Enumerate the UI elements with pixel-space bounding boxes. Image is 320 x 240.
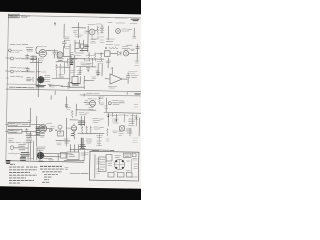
cluster row3: [26, 134, 32, 137]
junction dot x116: [116, 119, 118, 121]
resistor R5: [71, 59, 73, 65]
socket pin 1: [115, 160, 117, 162]
wire V1 cathode: [30, 61, 42, 63]
tick below divider x84: [83, 94, 85, 97]
supply arrow U1: [112, 67, 113, 70]
op-amp U1 input wire: [105, 78, 110, 80]
wire below V2b: [56, 61, 68, 63]
tick x51: [50, 96, 52, 100]
section C small text: [87, 92, 100, 94]
stack x84 sB: [83, 116, 85, 126]
section B title strip line: [80, 95, 141, 96]
attenuator parts row0: [26, 48, 33, 52]
rail wire: [70, 58, 104, 61]
wire mid: [76, 66, 96, 68]
wire x108: [107, 58, 109, 68]
wire v x58: [57, 154, 59, 161]
rail junction dot 2: [84, 58, 85, 59]
tube V4 envelope: [90, 100, 96, 106]
inset comp2 marks: [125, 155, 130, 157]
text row4: [9, 139, 14, 141]
resistor R7: [94, 53, 96, 61]
tube V4 grid: [90, 102, 94, 104]
Q1 label text: [88, 23, 101, 26]
U1 right text: [131, 76, 138, 78]
rail section B right: [104, 112, 141, 115]
resistor R1: [15, 58, 23, 60]
border tick row3: [6, 77, 9, 79]
cluster mid right: [59, 75, 64, 78]
capacitor C4: [87, 68, 90, 70]
wire x84: [83, 76, 85, 85]
capacitor C10: [63, 40, 67, 48]
tube V5 envelope: [71, 126, 76, 131]
resistor R12 horizontal: [109, 47, 118, 49]
connector F: [58, 125, 62, 129]
resistor R10 label: [74, 31, 78, 33]
inset wire v x132: [131, 159, 133, 172]
relay box K1: [75, 43, 79, 48]
wire x106: [105, 98, 107, 112]
text right stacks: [94, 127, 104, 129]
socket pin 4: [122, 167, 124, 169]
wire Q2 out: [129, 52, 138, 54]
junction dot x136: [136, 117, 137, 118]
wire x137b: [136, 50, 138, 62]
tick below divider x55: [54, 91, 56, 95]
text node D: [67, 108, 70, 110]
wire bus x88: [87, 26, 89, 52]
switch S2 contact c: [44, 157, 52, 159]
text row tail: [9, 141, 28, 144]
inset small text col: [97, 159, 101, 173]
marks x100 y38: [100, 37, 105, 43]
text V4 right: [101, 103, 104, 105]
marks x70 y52: [70, 53, 73, 55]
capacitor C11: [101, 25, 104, 34]
rail junction dot 3: [92, 58, 93, 59]
marks below V4: [89, 108, 94, 110]
inset bottom boxes a: [108, 173, 114, 178]
box H: [67, 152, 79, 160]
circuit tail connector J4: [10, 146, 14, 150]
rail label text 2: [75, 54, 94, 56]
wire x57: [56, 52, 58, 59]
wire x64 down: [63, 62, 65, 74]
wire row2: [23, 71, 35, 73]
wire V5 left: [66, 127, 71, 129]
wire row2 out: [22, 130, 36, 132]
wire V3 right: [47, 127, 52, 129]
box F: [58, 131, 64, 136]
bus dark cluster: [36, 127, 40, 134]
text x84 y61: [84, 60, 90, 62]
junction dot node B: [105, 47, 107, 49]
inset bottom boxes b: [118, 173, 125, 178]
notes line L5: [9, 177, 26, 179]
resistor R21: [73, 131, 75, 139]
box U2: [72, 77, 78, 84]
socket pin 3: [122, 160, 124, 162]
text rows x106: [106, 39, 115, 41]
capacitor C12: [136, 47, 139, 49]
box row2 text: [9, 131, 19, 133]
box G: [61, 153, 67, 159]
wire row1 out: [30, 124, 40, 126]
notes right col R4: [44, 174, 58, 176]
op-amp U1 output wire: [122, 78, 127, 80]
page background: [0, 0, 141, 200]
diode CR1: [118, 51, 122, 55]
switch S2 text: [37, 147, 46, 151]
inset box comp2b: [132, 153, 136, 156]
switch S2 spokes: [37, 152, 44, 159]
junction dot bus1: [36, 58, 37, 59]
Q1 right text: [100, 31, 105, 33]
dark marks below V5: [71, 134, 74, 136]
connector small V3 right: [49, 130, 51, 132]
wire v set b: [32, 141, 34, 160]
wire h y150: [70, 148, 104, 151]
marks left of V4: [85, 101, 89, 105]
resistor R3 marks: [27, 77, 34, 82]
connector J2: [11, 57, 14, 60]
notes heading: [9, 164, 64, 183]
cluster J4 boxes: [19, 145, 26, 150]
text right: [97, 136, 103, 138]
wire x30 sB: [29, 108, 31, 122]
faint cluster low right: [133, 138, 138, 142]
V2 right text rows: [65, 47, 70, 49]
marks x30 sB: [28, 120, 31, 122]
stack x136: [135, 115, 137, 127]
dark blob rail left: [6, 161, 10, 164]
wire x60 down: [59, 64, 61, 76]
text T-network lower: [75, 35, 84, 37]
wire x30 down: [29, 132, 31, 138]
resistor R22: [81, 126, 83, 134]
dark stack: [81, 138, 83, 148]
marks below S2 gear: [39, 160, 45, 162]
marks left of Q1: [85, 31, 88, 33]
V6 area text: [113, 101, 125, 105]
component text R12: [122, 47, 130, 51]
marks y86 mid: [51, 85, 55, 87]
wire x98: [97, 64, 99, 76]
marks x70 y70: [71, 71, 75, 73]
text mid sB: [51, 127, 55, 129]
wire F down: [59, 129, 61, 134]
notes right col R3: [42, 171, 62, 173]
wire vertical x137: [136, 44, 138, 53]
capacitor C20: [25, 128, 28, 133]
marks x77 y70: [77, 71, 82, 75]
border tick sB row1: [5, 123, 8, 125]
wire U2 out: [84, 79, 94, 81]
V1 top label: [38, 45, 47, 47]
right col text above: [129, 72, 138, 74]
wire x66 sB: [65, 97, 67, 109]
arrow node D: [65, 105, 68, 107]
bus wire 2: [37, 58, 39, 97]
wire vertical x64: [63, 24, 65, 38]
tube socket ring: [114, 159, 124, 169]
tick x127: [126, 92, 128, 94]
dark cluster sB: [78, 121, 85, 125]
relay box K1b: [81, 44, 84, 48]
switch S2 wafer: [37, 152, 44, 159]
wire V3 left: [36, 127, 39, 129]
cluster C10 text: [65, 37, 71, 40]
input connector J1: [9, 49, 12, 52]
junction dots mid: [51, 129, 52, 130]
wire x92 mid: [91, 59, 93, 67]
squiggle lower left: [9, 152, 20, 155]
wire below V2: [56, 66, 70, 68]
wire Q1 base: [86, 30, 98, 32]
faint marks x134 y104: [134, 105, 138, 108]
wire V2 out right: [64, 56, 73, 58]
component text U2: [92, 77, 96, 79]
section B title text: [9, 86, 34, 89]
connector circle E: [108, 102, 111, 105]
resistor R4 vertical: [67, 59, 69, 67]
labelled box row2: [8, 129, 22, 133]
marks x106 low: [106, 139, 109, 141]
trigger text row: [10, 43, 28, 45]
wire x99 sB low: [98, 134, 100, 147]
page top border: [8, 15, 141, 18]
resistor R4b vertical: [56, 64, 58, 78]
wire x108t: [107, 26, 109, 40]
tube V6 internals: [119, 125, 125, 131]
labelled box row1: [8, 122, 30, 126]
wire v set a2: [27, 143, 29, 161]
wire x74: [73, 56, 75, 76]
text row y44.6: [106, 44, 132, 47]
wire lower: [70, 86, 84, 90]
wire x68 short: [67, 82, 69, 89]
title box: [8, 14, 19, 18]
transistor Q1: [89, 29, 95, 35]
notes line L1: [9, 166, 38, 168]
text x112: [113, 131, 118, 133]
wire v x84: [83, 151, 85, 161]
text x97 y61: [97, 62, 103, 64]
wire y78.6: [52, 77, 70, 79]
resistor R25: [107, 129, 109, 136]
wavy cable J1: [11, 49, 22, 52]
inset marks right: [133, 158, 138, 160]
wire v set a: [29, 141, 31, 160]
border tick sB row2: [5, 130, 8, 132]
junction dot x108: [108, 116, 110, 118]
Q1 below cluster: [91, 40, 97, 44]
wire J4: [14, 147, 28, 149]
inset box right: [137, 152, 140, 181]
inset text: [115, 156, 121, 158]
marks right bus: [64, 139, 69, 143]
stack x132: [131, 114, 133, 124]
connector J3: [11, 70, 14, 73]
marks right col: [135, 61, 139, 66]
inset bottom boxes c: [127, 173, 133, 178]
stack x124: [123, 114, 125, 122]
section A bottom-left border: [6, 83, 40, 86]
tube V1 grid: [40, 51, 45, 55]
rail tick 2: [111, 113, 113, 117]
rail junction dot 1: [75, 58, 76, 59]
border tick row1: [6, 57, 11, 59]
wire v set d: [38, 150, 40, 161]
section C page ref: [135, 93, 141, 95]
node arrow A: [54, 23, 55, 26]
text above rail: [29, 158, 34, 160]
section divider line: [6, 89, 141, 92]
triode V2b circle: [71, 55, 75, 59]
wire row3 out: [32, 135, 40, 137]
V3 label below: [40, 134, 45, 137]
notes right col R5: [44, 176, 52, 178]
transistor Q2: [123, 51, 128, 56]
notes right col R7: [42, 181, 50, 183]
switch SW1 terminals dark: [37, 85, 46, 86]
cluster right mid: [126, 128, 132, 136]
test point TP1: [116, 29, 121, 34]
dark cluster V2 left: [70, 59, 74, 65]
dark L cluster: [71, 83, 81, 86]
tube V3 internals: [40, 126, 45, 130]
text row3: [10, 75, 23, 78]
box U3: [105, 51, 111, 57]
marks below V6: [119, 132, 125, 136]
wire V2 plate up: [62, 46, 64, 57]
dark marks B cluster: [80, 45, 89, 51]
text row2: [10, 67, 26, 70]
scanner black band bottom: [0, 186, 141, 200]
transistor Q2 internals: [125, 52, 128, 55]
resistor R20: [99, 97, 101, 104]
wire x80 down: [79, 67, 81, 75]
dark blob x20: [20, 157, 26, 160]
inset inner wire: [94, 155, 96, 179]
inset box comp2: [124, 153, 132, 157]
title box text: [9, 16, 18, 17]
notes line L6: [9, 180, 34, 182]
resistor R23: [86, 126, 88, 134]
wire T1 to bus: [48, 85, 70, 87]
wire x76 sB: [75, 104, 77, 116]
text below F: [57, 143, 62, 145]
rail text: [107, 114, 119, 116]
marks box H: [69, 153, 86, 156]
text x118 y115: [119, 114, 136, 117]
resistor R11: [97, 26, 99, 35]
wire x134: [133, 28, 135, 37]
border tick row2: [5, 70, 10, 72]
switch wafer SW1: [38, 77, 44, 83]
text SEE note: [65, 168, 88, 174]
wire h y133: [78, 132, 104, 135]
notes line L2: [9, 169, 37, 171]
cluster row4: [26, 139, 32, 142]
wire long x70: [69, 44, 71, 88]
wire below H: [64, 159, 84, 161]
bracket switch S0: [36, 47, 38, 54]
notes line L4: [9, 174, 37, 176]
text below strip: [99, 97, 105, 99]
stack x108: [107, 114, 109, 126]
V6 text left: [113, 119, 119, 123]
wire h y141: [56, 140, 70, 142]
wire U3 out: [110, 52, 117, 54]
dark cluster y148: [80, 145, 86, 149]
notes right col R1: [40, 165, 62, 167]
TP1 text: [122, 29, 133, 31]
wire cluster below Q1: [75, 40, 84, 52]
wire T-network vertical: [77, 23, 79, 39]
capacitor C1: [26, 54, 29, 59]
junction node C: [61, 86, 62, 87]
bus wire right sB: [65, 118, 67, 146]
V2 marks below: [58, 59, 64, 61]
tube V1 envelope: [39, 50, 46, 57]
cluster top of inset area: [70, 145, 78, 153]
notes line L3: [9, 172, 30, 174]
inset text above: [92, 149, 114, 151]
text row small: [10, 51, 19, 53]
title text: [21, 16, 31, 17]
marks x134 y117: [134, 117, 138, 119]
bus wire 1: [35, 56, 37, 88]
V4 label: [88, 98, 96, 100]
marks x105: [105, 106, 108, 108]
wire Q1 emitter: [92, 35, 98, 39]
resistor R2: [15, 71, 23, 73]
inset box left: [89, 151, 92, 180]
switch SW1 contacts: [45, 76, 51, 82]
inset box comp1: [106, 155, 112, 162]
U1 label below: [109, 86, 118, 88]
page left border: [6, 15, 8, 160]
op-amp U1 top wire: [111, 70, 113, 74]
socket pin 2: [115, 167, 117, 169]
notes right col R2: [40, 168, 64, 170]
tube V2 envelope: [57, 52, 63, 58]
wire V1 plate: [46, 50, 58, 52]
wire x80b: [79, 77, 81, 85]
notes right col R6: [44, 179, 49, 181]
dark cluster lower left: [21, 153, 30, 157]
inset left box: [99, 157, 107, 172]
inset right marks: [134, 164, 138, 169]
tube V2 grid: [58, 54, 62, 56]
top-right label row: [108, 22, 137, 25]
wire S2 a: [44, 152, 72, 155]
wire V1 left: [36, 52, 39, 54]
resistor R9 marks: [96, 71, 100, 74]
socket marks: [115, 160, 125, 170]
capacitor C2: [26, 67, 29, 72]
tube V5 grid: [72, 124, 76, 130]
stack x116: [115, 114, 117, 122]
switch cluster S1a: [31, 56, 37, 62]
rail label text: [75, 52, 104, 54]
marks center: [86, 139, 92, 143]
capacitor C3: [53, 49, 56, 58]
switch SW1 spokes: [37, 76, 44, 83]
text mid row: [81, 63, 92, 65]
